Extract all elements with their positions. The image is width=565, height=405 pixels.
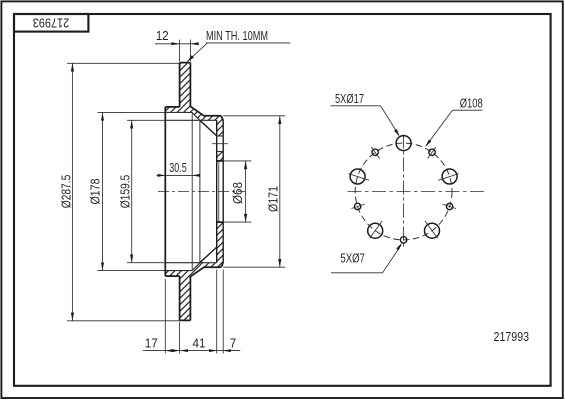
ext line Ø68 bottom [223, 221, 251, 223]
hat skirt outer surface (bottom) [165, 270, 192, 272]
ext line Ø171 top [223, 115, 285, 117]
skirt step diagonal (bottom) [192, 263, 200, 271]
stud hole Ø17 #1 [396, 136, 411, 151]
ext line ring face [179, 322, 181, 354]
bolt hole upper edge [217, 135, 224, 137]
right view vertical center line [403, 135, 405, 248]
ext line Ø178 top [98, 111, 166, 113]
svg-text:Ø68: Ø68 [230, 182, 245, 204]
dim line 12 [155, 43, 199, 45]
svg-text:Ø178: Ø178 [88, 179, 103, 205]
ring outer face [179, 63, 181, 107]
plate corner chamfer (top) [221, 116, 223, 121]
svg-text:MIN TH. 10MM: MIN TH. 10MM [206, 29, 268, 43]
bore chamfer line [218, 161, 220, 222]
skirt step diagonal (top) [192, 112, 200, 120]
svg-text:12: 12 [156, 28, 169, 43]
friction ring section (top) [180, 63, 191, 107]
cone inner edge (bottom) [200, 247, 217, 263]
svg-text:5XØ7: 5XØ7 [340, 252, 365, 266]
dim line Ø178 [102, 112, 104, 270]
ext line mounting face [164, 279, 166, 354]
svg-text:217993: 217993 [494, 329, 530, 344]
hat skirt inner surface (top) [165, 119, 216, 121]
hat skirt inner surface (bottom) [165, 262, 216, 264]
ring seat top edge [165, 106, 179, 108]
section view center line [158, 191, 245, 193]
flange plate top rim [204, 115, 222, 117]
skirt end silhouette line [191, 112, 193, 270]
ring seat band section (top) [165, 107, 192, 113]
dim line Ø68 [245, 161, 247, 222]
svg-text:Ø108: Ø108 [460, 96, 483, 110]
svg-text:41: 41 [193, 335, 206, 350]
friction ring section (bottom) [180, 276, 191, 320]
small hole Ø7 #5 [372, 149, 378, 155]
small hole Ø7 #1 [429, 149, 435, 155]
plate corner chamfer (bottom) [221, 263, 223, 268]
small hole Ø7 #2 [446, 203, 452, 209]
ext line Ø287.5 top [67, 62, 180, 64]
dim line 30.5 [157, 174, 201, 176]
cone silhouette line [199, 120, 201, 262]
bolt circle Ø108 [355, 143, 452, 240]
flange plate right face [222, 120, 224, 262]
stud hole Ø17 #2 [442, 169, 457, 184]
cone inner edge (top) [200, 120, 217, 136]
flange plate left face [216, 120, 218, 262]
ring seat bottom edge [165, 275, 179, 277]
bolt hole center tick [212, 143, 228, 145]
stud hole Ø17 #4 [368, 223, 383, 238]
leader Ø108 [452, 109, 482, 111]
bore top edge [217, 160, 224, 162]
cone outer edge (top) [191, 107, 204, 116]
svg-text:5XØ17: 5XØ17 [335, 92, 364, 106]
dim line 17-41-7 [143, 350, 241, 352]
ext line flange left [216, 270, 218, 354]
ext lines for 12 [179, 40, 181, 62]
svg-text:30.5: 30.5 [169, 160, 187, 175]
flange section between bolt hole and bore [217, 152, 224, 161]
dim line Ø159.5 [131, 120, 133, 262]
ext line Ø159.5 top [127, 119, 165, 121]
flange plate bottom rim [204, 266, 222, 268]
title box [14, 14, 88, 32]
hat cone section (top) [191, 107, 223, 136]
ext line Ø171 bottom [223, 266, 285, 268]
ext line Ø287.5 bottom [67, 320, 180, 322]
svg-text:7: 7 [230, 335, 237, 350]
hat skirt outer surface (top) [165, 111, 192, 113]
svg-text:Ø171: Ø171 [266, 186, 281, 212]
leader 5XØ7 [331, 272, 383, 274]
ring seat band section (bottom) [165, 271, 192, 277]
ext line Ø178 bottom [98, 270, 166, 272]
ext line flange right [222, 270, 224, 354]
dim line Ø287.5 [71, 63, 73, 321]
ext line Ø159.5 bottom [127, 262, 165, 264]
small hole Ø7 #4 [354, 203, 360, 209]
bolt hole lower edge [217, 151, 224, 153]
hat cone section (bottom) [191, 262, 223, 276]
hat mounting face [164, 107, 166, 276]
svg-text:Ø287.5: Ø287.5 [59, 175, 74, 209]
cone outer edge (bottom) [191, 267, 204, 276]
leader MIN TH. 10MM [206, 42, 291, 44]
ring top edge [180, 62, 191, 64]
svg-text:217993: 217993 [33, 16, 70, 31]
leader 5XØ17 [331, 105, 381, 107]
bore bottom edge [217, 221, 224, 223]
small hole Ø7 #3 [400, 237, 406, 243]
svg-text:17: 17 [145, 335, 158, 350]
ring inner face [189, 63, 191, 108]
right view horizontal center line [348, 191, 486, 193]
ext line Ø68 top [223, 160, 251, 162]
stud hole Ø17 #5 [350, 169, 365, 184]
dim line Ø171 [279, 116, 281, 267]
svg-text:Ø159.5: Ø159.5 [117, 175, 132, 209]
stud hole Ø17 #3 [425, 223, 440, 238]
ring bottom edge [180, 319, 191, 321]
flange section below bore [217, 222, 224, 262]
